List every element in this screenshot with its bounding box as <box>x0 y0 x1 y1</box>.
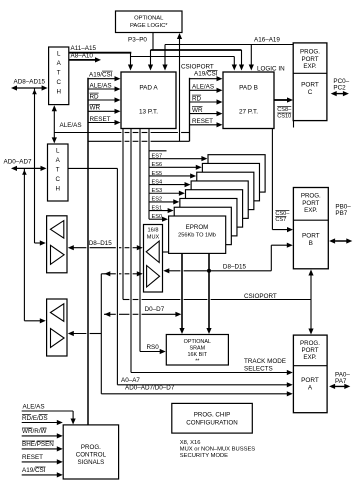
svg-text:CONFIGURATION: CONFIGURATION <box>186 420 237 427</box>
label A16-A19 <box>254 37 280 44</box>
svg-text:27 P.T.: 27 P.T. <box>239 109 258 116</box>
wire ES1 select line <box>149 208 174 213</box>
svg-text:D0–D7: D0–D7 <box>145 306 165 313</box>
svg-text:PROG.: PROG. <box>300 49 320 56</box>
wire CS8-CS10 from PAD B to PORT C <box>274 97 293 102</box>
svg-text:CSI: CSI <box>102 71 113 78</box>
wire ALE/AS stub into PAD A <box>88 86 121 91</box>
wire AD8-AD15 vertical to buffer <box>32 88 37 243</box>
wire EPROM to SRAM left <box>179 253 184 334</box>
label A19/CSI (PAD A) <box>89 71 113 78</box>
svg-text:ALE/AS: ALE/AS <box>23 403 45 410</box>
svg-text:T: T <box>56 167 60 174</box>
label LOGIC IN <box>257 66 285 73</box>
svg-text:C: C <box>56 79 61 86</box>
label A11-A15 <box>71 45 97 52</box>
wire AD0-AD7/D0-D7 line to PORT A <box>101 391 292 396</box>
label BHE/PSEN <box>22 441 54 448</box>
wire P3-P0 horizontal bus <box>151 49 242 51</box>
svg-text:EXP.: EXP. <box>304 207 318 214</box>
EPROM bank box ES1 <box>174 207 231 244</box>
svg-text:CSI: CSI <box>35 467 46 474</box>
wire A11-A15 from latch <box>69 52 132 54</box>
label A8-A10 <box>71 53 94 60</box>
svg-text:D8–D15: D8–D15 <box>89 240 113 247</box>
wire feed up into page logic <box>177 33 182 141</box>
label RESET (PAD B) <box>192 118 213 125</box>
svg-text:PORT: PORT <box>301 347 318 354</box>
svg-text:256Kb TO 1Mb: 256Kb TO 1Mb <box>178 233 216 239</box>
port C block <box>293 43 327 121</box>
svg-text:OPTIONAL: OPTIONAL <box>184 339 211 345</box>
EPROM bank box ES4 <box>191 181 248 218</box>
wire into buffer2 left <box>24 318 45 323</box>
svg-text:RS0: RS0 <box>147 344 160 351</box>
label ALE/AS (latches) <box>60 122 82 129</box>
wire RESET into prog control <box>22 459 63 464</box>
svg-text:16K BIT: 16K BIT <box>188 352 208 358</box>
wire WR stub into PAD B <box>190 111 223 116</box>
label WR (PAD A) <box>90 104 101 111</box>
wire track mode vertical from PAD A <box>130 129 132 373</box>
svg-text:L: L <box>57 51 61 58</box>
label PB0-PB7 <box>335 204 351 218</box>
svg-text:SIGNALS: SIGNALS <box>77 459 104 466</box>
svg-text:PAD A: PAD A <box>139 85 158 92</box>
svg-text:BHE: BHE <box>22 441 35 448</box>
wire ALE/AS into prog control top <box>22 411 76 425</box>
wire A8-A10 from latch <box>69 57 101 62</box>
label ES0 <box>152 214 163 220</box>
svg-text:PORT: PORT <box>301 56 318 63</box>
wire ALE/AS stub into PAD B <box>190 88 223 93</box>
label AD0-AD7 <box>4 159 32 166</box>
svg-text:RESET: RESET <box>90 116 111 123</box>
label RD (PAD B) <box>192 95 202 102</box>
wire A16-A19 drop into PAD B <box>249 45 254 71</box>
wire RS0 vertical from PAD A <box>139 129 141 352</box>
label RS0 <box>147 344 160 351</box>
svg-text:AD0–AD7: AD0–AD7 <box>4 159 32 166</box>
svg-text:PC2: PC2 <box>333 85 346 92</box>
wire ES7 select line <box>149 156 207 161</box>
label D8-D15 (left) <box>89 240 113 247</box>
svg-text:AD8–AD15: AD8–AD15 <box>14 79 46 86</box>
svg-text:CSI: CSI <box>207 71 218 78</box>
wire CSIOPORT horizontal <box>123 299 311 301</box>
wire A19/CSI stub into PAD B <box>190 76 223 81</box>
svg-text:T: T <box>57 70 61 77</box>
label A19/CSI (PAD B) <box>194 70 218 77</box>
EPROM bank box ES2 <box>180 198 237 235</box>
svg-text:P3–P0: P3–P0 <box>128 37 147 44</box>
latch U3 (low address byte) <box>48 144 69 201</box>
label D0-D7 <box>145 306 165 313</box>
svg-text:B: B <box>309 240 313 247</box>
wire CS0-CS7 from PAD B to PORT B <box>272 129 293 233</box>
svg-text:H: H <box>56 89 60 96</box>
wire A0-A7 line to PORT A <box>117 382 292 387</box>
note SECURITY MODE <box>180 453 228 459</box>
wire D0-D7 bus vertical <box>100 274 102 394</box>
svg-text:WR: WR <box>22 428 33 435</box>
svg-text:CS7: CS7 <box>275 217 286 223</box>
svg-text:A8–A10: A8–A10 <box>71 53 94 60</box>
svg-text:L: L <box>56 148 60 155</box>
wire track mode selects line <box>131 370 293 375</box>
svg-text:ALE/AS: ALE/AS <box>90 82 112 89</box>
svg-text:CS8–: CS8– <box>277 107 292 113</box>
wire AD0-AD7 bus double arrow <box>11 166 47 171</box>
wire P3-P0 drop into PAD B <box>239 50 244 71</box>
svg-text:CSIOPORT: CSIOPORT <box>244 293 277 300</box>
svg-text:ES0: ES0 <box>152 214 163 220</box>
wire RD stub into PAD B <box>190 99 223 104</box>
label ES4 <box>152 179 163 185</box>
wire RESET stub into PAD A <box>88 120 121 125</box>
label WR (PAD B) <box>192 107 203 114</box>
label AD0-AD7/D0-D7 <box>125 384 175 391</box>
wire A11-A15 branch to PAD B <box>131 56 235 58</box>
label ALE/AS (PAD A) <box>90 82 112 89</box>
label CSIOPORT (top) <box>181 64 214 71</box>
wire RD stub into PAD A <box>88 97 121 102</box>
prog chip configuration block <box>172 403 253 433</box>
svg-text:OPTIONAL: OPTIONAL <box>134 16 164 22</box>
wire bus H2 under PAD A <box>88 140 190 142</box>
svg-text:SECURITY MODE: SECURITY MODE <box>180 453 228 459</box>
svg-text:H: H <box>55 186 59 193</box>
wire control bus trunk <box>87 78 89 425</box>
svg-text:13 P.T.: 13 P.T. <box>139 109 158 116</box>
PAD B programmable array <box>223 72 274 129</box>
wire ES5 select line <box>149 173 196 178</box>
prog control signals block <box>63 425 118 479</box>
wire ES4 select line <box>149 182 191 187</box>
svg-text:SELECTS: SELECTS <box>244 366 273 373</box>
note MUX or NON-MUX BUSSES <box>180 446 256 452</box>
label PA0-PA7 <box>335 372 350 386</box>
label CSIOPORT (lower) <box>244 293 277 300</box>
optional page logic block U1 <box>116 11 183 33</box>
label ALE/AS (PAD B) <box>192 84 214 91</box>
wire A11-A15 drop into PAD A <box>128 53 133 71</box>
svg-text:EXP.: EXP. <box>303 354 317 361</box>
label ES7 <box>152 153 163 159</box>
port B block <box>293 188 328 269</box>
EPROM bank box ES7 <box>208 155 265 192</box>
wire CSIOPORT up into PORT B <box>308 270 313 300</box>
wire ES2 select line <box>149 199 179 204</box>
wire ES select vertical from PAD A <box>148 129 150 220</box>
port A block <box>293 335 327 413</box>
svg-text:ALE/AS: ALE/AS <box>192 84 214 91</box>
svg-text:PORT: PORT <box>301 377 319 384</box>
wire D8-D15 between buffer1 and mux <box>68 245 143 250</box>
wire A16-A19 horizontal <box>165 44 293 46</box>
wire A19/CSI stub into PAD A <box>88 76 121 81</box>
svg-text:RESET: RESET <box>22 454 43 461</box>
wire PB0-PB7 double arrow <box>329 238 352 243</box>
wire RESET stub into PAD B <box>190 122 223 127</box>
label ES1 <box>152 205 163 211</box>
svg-text:CS10: CS10 <box>277 114 291 120</box>
wire A19/CSI into prog control <box>22 472 63 477</box>
wire A11-A15 drop into PAD B <box>232 57 237 71</box>
label RD (PAD A) <box>90 93 100 100</box>
svg-text:PORT: PORT <box>302 200 319 207</box>
mux 16/8 block <box>144 225 163 293</box>
wire latched A0-A7 vertical <box>68 168 117 384</box>
svg-text:ES1: ES1 <box>152 205 163 211</box>
wire stub below port C <box>293 121 295 128</box>
wire ES3 select line <box>149 191 185 196</box>
EPROM bank box ES3 <box>185 190 242 227</box>
wire into buffer left (d8-d15 side) <box>35 240 46 245</box>
wire mux lower data line <box>101 271 143 276</box>
label ALE/AS (bottom) <box>23 403 45 410</box>
wire D0-D7 double arrow <box>104 312 181 317</box>
svg-text:PB7: PB7 <box>335 210 347 217</box>
wire ES label ladder top cap <box>149 150 167 152</box>
svg-text:WR: WR <box>90 105 101 112</box>
label ES3 <box>152 188 163 194</box>
wire P3-P0 drop into PAD A <box>148 50 153 71</box>
label ES6 <box>152 162 163 168</box>
label CS8-CS10 <box>277 106 292 119</box>
svg-text:EPROM: EPROM <box>186 224 209 231</box>
svg-text:PAGE LOGIC*: PAGE LOGIC* <box>130 23 168 29</box>
wire P3-P0 vertical from page logic <box>152 33 154 51</box>
svg-text:RD: RD <box>192 95 202 102</box>
svg-text:RESET: RESET <box>192 118 213 125</box>
svg-text:PROG.: PROG. <box>301 193 321 200</box>
wire BHE/PSEN into prog control <box>22 446 63 451</box>
svg-text:A19/: A19/ <box>89 71 102 78</box>
svg-text:DS: DS <box>39 415 48 422</box>
wire PC0-PC2 double arrow <box>331 91 349 96</box>
svg-text:PROG.: PROG. <box>300 340 320 347</box>
wire EPROM to SRAM right <box>206 253 211 334</box>
latch U2 (high address byte) <box>49 47 69 105</box>
svg-text:ES6: ES6 <box>152 162 163 168</box>
svg-text:A19/: A19/ <box>22 467 35 474</box>
wire buffer2 to D0-D7 bus <box>68 331 102 336</box>
wire CSIOPORT down into PORT A <box>308 300 313 335</box>
wire A16-A19 drop into PAD A <box>162 45 167 71</box>
buffer/transceiver B2 (D0-D7) <box>47 299 67 356</box>
PAD A programmable array <box>121 72 176 129</box>
svg-text:16/8: 16/8 <box>148 228 159 234</box>
wire WR stub into PAD A <box>88 109 121 114</box>
wire RS0 into SRAM <box>140 349 166 354</box>
svg-text:PSEN: PSEN <box>37 441 55 448</box>
svg-text:PROG. CHIP: PROG. CHIP <box>194 412 230 419</box>
svg-text:A19/: A19/ <box>194 71 207 78</box>
wire PA0-PA7 double arrow <box>329 384 350 389</box>
svg-text:ES2: ES2 <box>152 197 163 203</box>
svg-text:CONTROL: CONTROL <box>76 452 107 459</box>
label P3-P0 <box>128 37 147 44</box>
svg-text:A11–A15: A11–A15 <box>71 45 97 52</box>
wire WR/R/W into prog control <box>22 433 63 438</box>
wire bus H1 under PAD A <box>54 132 189 134</box>
svg-text:ALE/AS: ALE/AS <box>60 122 82 129</box>
wire pad-b bus trunk <box>189 78 191 142</box>
optional SRAM block <box>166 335 228 366</box>
label RESET (bottom) <box>22 454 43 461</box>
wire AD8-AD15 bus double arrow <box>11 85 48 90</box>
svg-text:PORT: PORT <box>302 233 320 240</box>
wire ES0 select line <box>149 217 168 222</box>
svg-text:PROG.: PROG. <box>81 444 101 451</box>
svg-text:MUX: MUX <box>147 235 160 241</box>
label CS0-CS7 <box>275 211 290 224</box>
svg-text:TRACK MODE: TRACK MODE <box>244 358 286 365</box>
svg-text:W: W <box>41 428 47 435</box>
EPROM bank box ES6 <box>202 163 259 200</box>
svg-text:C: C <box>308 89 313 96</box>
wire AD0-AD7 vertical to buffer2 <box>22 168 27 320</box>
label ES2 <box>152 197 163 203</box>
svg-text:X8, X16: X8, X16 <box>180 440 201 446</box>
note X8 X16 <box>180 440 201 446</box>
label PC0-PC2 <box>333 78 349 92</box>
wire ALE/AS latch clock <box>52 105 57 143</box>
label D8-D15 (right) <box>223 264 247 271</box>
wire mux to EPROM <box>163 251 169 253</box>
wire D8-D15 from EPROM to PORT B <box>163 243 292 274</box>
wire CSIOPORT vertical from PAD A <box>122 129 124 300</box>
label WR/R/W <box>22 428 47 435</box>
label ES5 <box>152 171 163 177</box>
svg-text:EXP.: EXP. <box>303 63 317 70</box>
label EPROM 256Kb TO 1Mb <box>178 224 216 239</box>
svg-text:MUX or NON–MUX BUSSES: MUX or NON–MUX BUSSES <box>180 446 256 452</box>
svg-text:A16–A19: A16–A19 <box>254 37 280 44</box>
svg-text:SRAM: SRAM <box>190 346 206 352</box>
label A19/CSI (bottom) <box>22 467 46 474</box>
svg-text:ES5: ES5 <box>152 171 163 177</box>
svg-text:PAD B: PAD B <box>239 85 258 92</box>
svg-text:ES7: ES7 <box>152 153 163 159</box>
label A0-A7 <box>121 377 140 384</box>
wire RD/E/DS into prog control <box>22 420 63 425</box>
wire ES6 select line <box>149 165 202 170</box>
EPROM bank box ES0 <box>169 216 226 253</box>
svg-text:ES3: ES3 <box>152 188 163 194</box>
svg-text:C: C <box>55 176 60 183</box>
svg-text:A: A <box>308 385 313 392</box>
svg-text:PORT: PORT <box>301 82 319 89</box>
EPROM bank box ES5 <box>197 172 254 209</box>
svg-text:D8–D15: D8–D15 <box>223 264 247 271</box>
svg-text:A0–A7: A0–A7 <box>121 377 140 384</box>
svg-text:WR: WR <box>192 107 203 114</box>
svg-text:PA7: PA7 <box>335 378 347 385</box>
label RESET (PAD A) <box>90 116 111 123</box>
buffer/transceiver B1 (D8-D15) <box>47 216 67 273</box>
label RD/E/DS <box>22 415 48 422</box>
label AD8-AD15 <box>14 79 46 86</box>
label TRACK MODE SELECTS <box>244 358 286 373</box>
svg-text:ES4: ES4 <box>152 179 163 185</box>
svg-text:RD: RD <box>90 93 100 100</box>
